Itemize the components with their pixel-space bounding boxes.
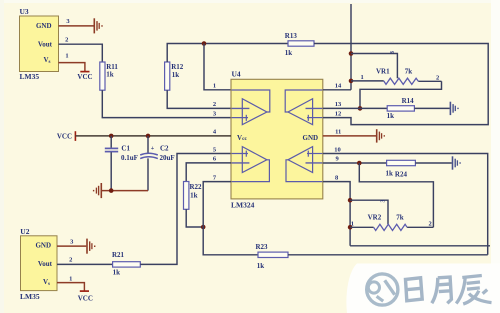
logo character yue — [432, 277, 452, 303]
wire R24 to ground — [415, 162, 451, 164]
svg-text:R22: R22 — [190, 183, 203, 191]
svg-text:2: 2 — [436, 75, 439, 82]
svg-text:Vout: Vout — [38, 40, 53, 48]
U3 pin 2 label — [65, 37, 68, 44]
svg-text:GND: GND — [303, 134, 319, 142]
svg-text:1k: 1k — [172, 71, 180, 79]
op-amp U4C — [232, 147, 270, 182]
wire R12 bottom to U4 pin 2 — [167, 90, 231, 108]
svg-text:13: 13 — [335, 101, 342, 108]
svg-text:+: + — [151, 145, 155, 152]
wire VR2 wiper — [350, 200, 388, 224]
U3 pin 3 label — [66, 18, 70, 25]
svg-text:LM324: LM324 — [231, 201, 255, 210]
power VCC rail to U4 pin 4 — [57, 131, 231, 141]
svg-text:1: 1 — [351, 220, 354, 227]
svg-text:U2: U2 — [20, 227, 29, 236]
node A junction — [202, 41, 207, 46]
U2 pin 1 label — [69, 275, 72, 282]
wire R23 to pin 10 loop — [288, 254, 488, 256]
ground (U2 GND) — [87, 239, 95, 254]
wire node B to R23 — [203, 227, 258, 255]
svg-text:1: 1 — [361, 74, 364, 81]
U4 pin 10 wire loop to R23 — [323, 154, 488, 255]
svg-text:2: 2 — [429, 220, 432, 227]
U4 pin 11 wire to ground — [323, 135, 376, 137]
watermark plate — [346, 264, 500, 313]
svg-text:R14: R14 — [402, 97, 415, 105]
VR1 wiper pin 3 label — [390, 51, 396, 54]
potentiometer VR2 — [350, 213, 433, 230]
wire node B to U4 pin 7 — [203, 182, 231, 227]
U4 pin 13 wire — [323, 107, 387, 109]
wire VR1 wiper — [351, 54, 397, 79]
resistor R22 — [184, 182, 203, 210]
svg-text:1k: 1k — [113, 269, 121, 277]
resistor R13 — [285, 32, 314, 57]
wire R21 to U4 pin 5 — [140, 154, 231, 265]
resistor R21 — [112, 251, 140, 277]
op-amp U4B — [285, 90, 322, 125]
svg-text:U4: U4 — [232, 69, 241, 78]
U2 pin 1 wire — [57, 283, 84, 291]
capacitor C2 — [140, 136, 174, 191]
U2 pin 3 label — [70, 238, 74, 245]
svg-text:2: 2 — [69, 256, 72, 263]
U4 pin 8 wire — [323, 182, 350, 246]
svg-text:VCC: VCC — [77, 73, 92, 81]
svg-text:C1: C1 — [121, 144, 130, 152]
power VCC (U3) — [77, 72, 92, 81]
wire U3.Vout to R11 — [59, 44, 103, 62]
svg-text:1: 1 — [213, 83, 216, 90]
svg-text:2: 2 — [213, 101, 216, 108]
wire U4 pin6 to R22 — [186, 163, 231, 182]
svg-text:1k: 1k — [285, 49, 293, 57]
svg-text:Vout: Vout — [38, 260, 53, 268]
sensor U3 — [20, 7, 59, 81]
node pin 9 junction — [357, 161, 362, 166]
svg-text:GND: GND — [35, 242, 51, 250]
wire U2.Vout to R21 — [57, 263, 113, 265]
U4 pin 9 wire — [323, 162, 387, 164]
svg-text:C2: C2 — [160, 144, 169, 152]
ground (U4 pin 11) — [377, 129, 385, 142]
ground (R14) — [450, 102, 458, 115]
U3 pin 1 label — [65, 52, 68, 59]
node cap ground junction — [109, 188, 114, 193]
logo character ri — [406, 278, 423, 301]
svg-text:1k: 1k — [106, 71, 114, 79]
node B junction — [201, 225, 206, 230]
svg-text:11: 11 — [335, 129, 341, 136]
svg-text:10: 10 — [334, 146, 341, 153]
wire R22 bottom to node B — [186, 209, 203, 227]
node C1 rail junction — [109, 134, 114, 139]
wire top vertical net — [350, 4, 352, 90]
resistor R12 — [165, 62, 184, 90]
op-amp U4A — [232, 90, 270, 125]
node VR1 wiper junction — [349, 51, 354, 56]
svg-text:3: 3 — [381, 200, 387, 203]
wire R13 right loop to U4 pin 12 — [314, 44, 488, 125]
node VR1 terminal 1 junction — [349, 79, 354, 84]
svg-text:VCC: VCC — [78, 294, 93, 302]
svg-text:1k: 1k — [387, 112, 395, 120]
wire R14 to ground — [414, 107, 449, 109]
svg-text:GND: GND — [36, 22, 52, 30]
svg-text:Vcc: Vcc — [237, 134, 248, 142]
svg-text:LM35: LM35 — [20, 72, 40, 81]
svg-text:7k: 7k — [396, 213, 404, 221]
svg-text:R21: R21 — [112, 251, 125, 259]
svg-text:VR2: VR2 — [368, 213, 382, 221]
node pin 13 junction — [358, 106, 363, 111]
svg-text:1k: 1k — [386, 170, 394, 178]
node VR2 wiper junction — [348, 198, 353, 203]
U3 pin 1 wire — [59, 63, 85, 72]
potentiometer VR1 — [351, 68, 442, 85]
op-amp IC U4 body — [231, 69, 323, 209]
svg-text:1: 1 — [69, 275, 72, 282]
svg-text:R24: R24 — [395, 171, 408, 179]
wire R12 top to node A — [167, 44, 288, 63]
svg-text:VCC: VCC — [57, 133, 72, 141]
svg-text:12: 12 — [335, 110, 342, 117]
U2 pin 3 wire — [57, 245, 86, 247]
op-amp U4D — [286, 147, 322, 182]
svg-text:1k: 1k — [190, 192, 198, 200]
svg-text:3: 3 — [390, 51, 396, 54]
U4 right pin number labels 8-14 — [334, 83, 342, 182]
svg-text:R23: R23 — [256, 243, 269, 251]
wire node A to U4 pin 1 — [204, 44, 231, 90]
svg-text:1k: 1k — [257, 262, 265, 270]
logo circle icon — [367, 274, 398, 305]
sensor U2 — [20, 227, 57, 301]
wire R11 to U4 pin 3 — [102, 90, 231, 117]
ground (U3 GND) — [94, 18, 102, 33]
svg-text:1: 1 — [65, 52, 68, 59]
svg-text:R13: R13 — [285, 32, 298, 40]
svg-text:2: 2 — [65, 37, 68, 44]
U4 pin 14 wire — [323, 89, 351, 91]
resistor R24 — [386, 160, 416, 178]
power VCC (U2) — [78, 291, 93, 302]
logo character chen — [456, 276, 491, 305]
capacitor C1 — [105, 136, 138, 191]
svg-text:LM35: LM35 — [20, 292, 40, 301]
node C2 rail junction — [146, 134, 151, 139]
node VR2 terminal 1 junction — [348, 225, 353, 230]
resistor R11 — [100, 62, 119, 90]
wire pin 9 node to VR2 terminal 2 — [359, 163, 433, 227]
svg-text:0.1uF: 0.1uF — [121, 154, 138, 162]
svg-text:7k: 7k — [405, 68, 413, 76]
U2 pin 2 label — [69, 256, 72, 263]
wire VR1 terminal 2 to pin 13 node — [360, 81, 442, 108]
ground (C1 C2) — [94, 183, 102, 198]
resistor R23 — [256, 243, 289, 270]
VR2 wiper pin 3 label — [381, 200, 387, 203]
wire C1 C2 ground loop — [102, 190, 148, 192]
U4 left pin number labels 1-7 — [213, 83, 217, 182]
U3 pin 3 wire — [59, 25, 94, 27]
ground (R24) — [453, 156, 461, 169]
svg-text:14: 14 — [335, 83, 342, 90]
svg-text:R12: R12 — [171, 63, 184, 71]
wire VR2 bottom loop — [350, 245, 490, 247]
svg-text:U3: U3 — [20, 7, 29, 16]
resistor R14 — [387, 97, 415, 120]
svg-text:VR1: VR1 — [376, 68, 390, 76]
svg-text:20uF: 20uF — [160, 154, 175, 162]
